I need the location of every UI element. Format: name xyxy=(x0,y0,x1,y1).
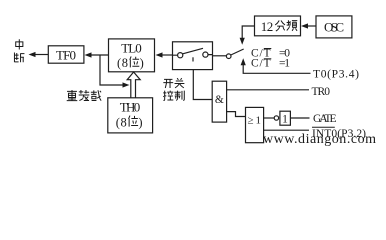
switch lever xyxy=(183,48,203,54)
wire 12分频 to C/T=0 contact, down arrowhead xyxy=(242,26,254,39)
flip-flop TF0 xyxy=(48,46,84,63)
wire OSC to 12分频 with left arrowhead xyxy=(307,25,317,27)
wire T0 pin to C/T=1 contact, up arrowhead xyxy=(243,64,310,74)
svg-text:(8: (8 xyxy=(116,115,127,129)
svg-text:www.diangon.com: www.diangon.com xyxy=(263,132,376,147)
svg-text:12: 12 xyxy=(261,19,274,34)
svg-text:GATE: GATE xyxy=(313,113,337,125)
inverter bubble xyxy=(274,116,278,120)
inverter box 1 xyxy=(280,111,291,125)
svg-text:1: 1 xyxy=(282,113,288,125)
wire OR gate to inverter bubble xyxy=(264,117,275,119)
oscillator box OSC xyxy=(316,16,352,38)
wire OR gate output to AND gate xyxy=(227,112,246,117)
svg-text:): ) xyxy=(140,56,144,70)
register TH0 (8位) xyxy=(108,98,153,133)
svg-text:(8: (8 xyxy=(117,56,128,70)
wire INT0 input to OR gate xyxy=(264,129,309,131)
label 开关控制 (switch control) xyxy=(163,78,184,100)
wire GATE input to inverter xyxy=(290,117,309,119)
wire TF0 output to interrupt with left arrowhead xyxy=(34,54,48,56)
switch box xyxy=(173,42,213,70)
label 重装载 (reload) xyxy=(67,90,101,101)
label GATE xyxy=(313,113,337,125)
wire switch box to pole contact xyxy=(213,55,227,57)
svg-text:=1: =1 xyxy=(279,58,290,70)
AND gate & xyxy=(212,81,226,122)
wire switch output to TL0 with left arrowhead xyxy=(161,54,173,56)
svg-text:&: & xyxy=(215,94,224,106)
wire TR0 input to AND gate xyxy=(227,89,309,91)
svg-text:TL0: TL0 xyxy=(121,40,142,55)
svg-text:OSC: OSC xyxy=(324,20,344,35)
switch right contact xyxy=(203,52,208,57)
svg-text:TF0: TF0 xyxy=(56,47,76,62)
label C/T=1 with overline xyxy=(251,58,290,70)
pole lever toward C/T=0 contact xyxy=(231,49,244,55)
OR gate ≥1 xyxy=(246,107,264,142)
label INT0(P3.2) with overline xyxy=(312,128,366,140)
svg-text:≥1: ≥1 xyxy=(248,114,261,126)
wire stubs inside switch box xyxy=(173,54,213,57)
label TR0 xyxy=(312,86,331,98)
label T0(P3.4) xyxy=(313,68,359,80)
watermark www.diangon.com xyxy=(263,132,376,147)
switch left contact xyxy=(178,53,183,58)
reload hollow arrow TH0 to TL0 xyxy=(127,72,140,98)
register TL0 (8位) xyxy=(109,39,155,72)
pole contact circle xyxy=(226,54,231,59)
divider box 12分频 xyxy=(255,16,301,36)
svg-text:T0(P3.4): T0(P3.4) xyxy=(313,68,359,80)
wire overflow branch down to reload trigger, right arrowhead xyxy=(100,55,124,85)
wire TL0 overflow to TF0 with left arrowhead xyxy=(90,54,109,56)
svg-text:TH0: TH0 xyxy=(120,100,141,115)
control link from switch to AND gate xyxy=(192,57,194,61)
label C/T=0 with overline xyxy=(251,47,290,59)
svg-text:): ) xyxy=(138,115,142,129)
node 中断 (interrupt label) xyxy=(14,39,24,62)
svg-text:TR0: TR0 xyxy=(312,86,331,98)
